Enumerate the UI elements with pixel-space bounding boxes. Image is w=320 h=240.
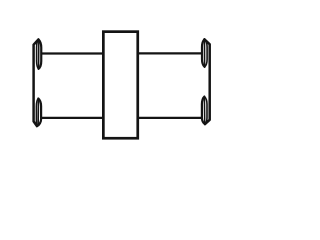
top-right clip contact <box>202 39 207 67</box>
wire bottom-left <box>41 117 103 119</box>
wire top-right <box>138 52 202 54</box>
bottom-right clip contact <box>202 97 207 125</box>
wire top-left <box>41 52 103 54</box>
top-left clip contact <box>37 39 42 68</box>
wire bottom-right <box>138 117 202 119</box>
bottom-left clip contact <box>36 99 41 127</box>
component body U1 <box>103 32 137 139</box>
right rail <box>204 39 209 124</box>
left rail <box>34 40 39 127</box>
